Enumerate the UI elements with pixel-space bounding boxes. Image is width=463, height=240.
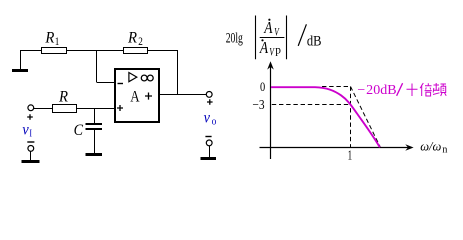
y axis	[267, 61, 274, 159]
source vi minus	[27, 141, 34, 143]
dashed vertical at omega=1	[350, 87, 352, 148]
wire (ground to R1)	[20, 50, 42, 52]
svg-text:n: n	[442, 144, 447, 155]
source vo minus	[205, 136, 211, 138]
svg-text:A: A	[263, 19, 273, 38]
source vo plus	[207, 99, 213, 105]
wire (vo ground)	[209, 146, 211, 157]
dashed asymptote -20dB/decade	[351, 87, 381, 148]
svg-text:p: p	[275, 43, 281, 56]
svg-text:C: C	[74, 122, 84, 139]
svg-text:o: o	[212, 116, 217, 127]
svg-text:v: v	[22, 122, 29, 139]
dashed -3 line	[272, 104, 351, 106]
wire (R1 to R2)	[67, 50, 124, 52]
node vo ground terminal	[206, 140, 212, 146]
svg-text:2: 2	[138, 36, 143, 48]
absolute-value bars	[256, 16, 287, 60]
slash dB unit	[298, 24, 321, 49]
svg-text:−3: −3	[252, 97, 264, 112]
svg-text:R: R	[58, 88, 69, 106]
wire (R to op-amp noninverting)	[77, 108, 116, 110]
wire (feedback R2 to output node)	[148, 50, 178, 95]
svg-text:v: v	[204, 110, 211, 127]
response curve	[271, 87, 380, 147]
ground (below capacitor)	[86, 153, 103, 156]
op-amp infinity symbol	[141, 75, 147, 81]
svg-text:R: R	[127, 29, 138, 47]
node vo terminal	[206, 92, 212, 98]
fraction dot-A V over dot-A Vp	[259, 19, 284, 60]
svg-text:A: A	[259, 39, 269, 58]
wire (output)	[159, 94, 206, 96]
ground (below vi)	[22, 160, 40, 163]
node vi ground terminal	[28, 146, 34, 152]
source vi plus	[27, 114, 33, 120]
wire (vi ground)	[30, 152, 32, 161]
resistor R2	[124, 29, 148, 54]
svg-text:I: I	[29, 128, 32, 139]
label vI	[22, 122, 32, 139]
svg-text:0: 0	[260, 79, 265, 94]
dashed 0 corner line	[322, 86, 351, 88]
svg-text:dB: dB	[307, 34, 322, 50]
svg-text:A: A	[130, 88, 140, 106]
svg-text:−20dB: −20dB	[357, 83, 396, 98]
x axis	[260, 144, 414, 151]
svg-text:ω/ω: ω/ω	[420, 140, 441, 154]
x axis label omega over omega-n	[420, 140, 447, 156]
svg-text:1: 1	[55, 36, 60, 48]
hanzi bei	[420, 83, 432, 96]
op-amp minus label	[118, 83, 124, 85]
wire (vi to R)	[34, 108, 53, 110]
wire (inverting input tap)	[97, 50, 116, 83]
resistor R1	[42, 29, 67, 54]
hanzi pin	[433, 83, 446, 96]
op-amp A	[115, 69, 159, 122]
annotation -20dB/decade	[357, 83, 446, 98]
svg-text:V: V	[269, 47, 275, 59]
svg-text:R: R	[44, 29, 55, 47]
op-amp infinite-gain triangle	[129, 73, 137, 82]
svg-text:20lg: 20lg	[226, 30, 243, 46]
hanzi shi	[407, 84, 418, 97]
ground (below vo)	[201, 157, 217, 160]
resistor R	[53, 88, 77, 112]
op-amp plus (noninverting)	[117, 105, 123, 111]
op-amp plus (output polarity)	[145, 93, 152, 100]
ground (top-left)	[12, 50, 28, 71]
capacitor C	[74, 108, 102, 153]
node vi terminal	[28, 105, 34, 111]
svg-text:1: 1	[348, 149, 353, 164]
label vo	[204, 110, 217, 128]
